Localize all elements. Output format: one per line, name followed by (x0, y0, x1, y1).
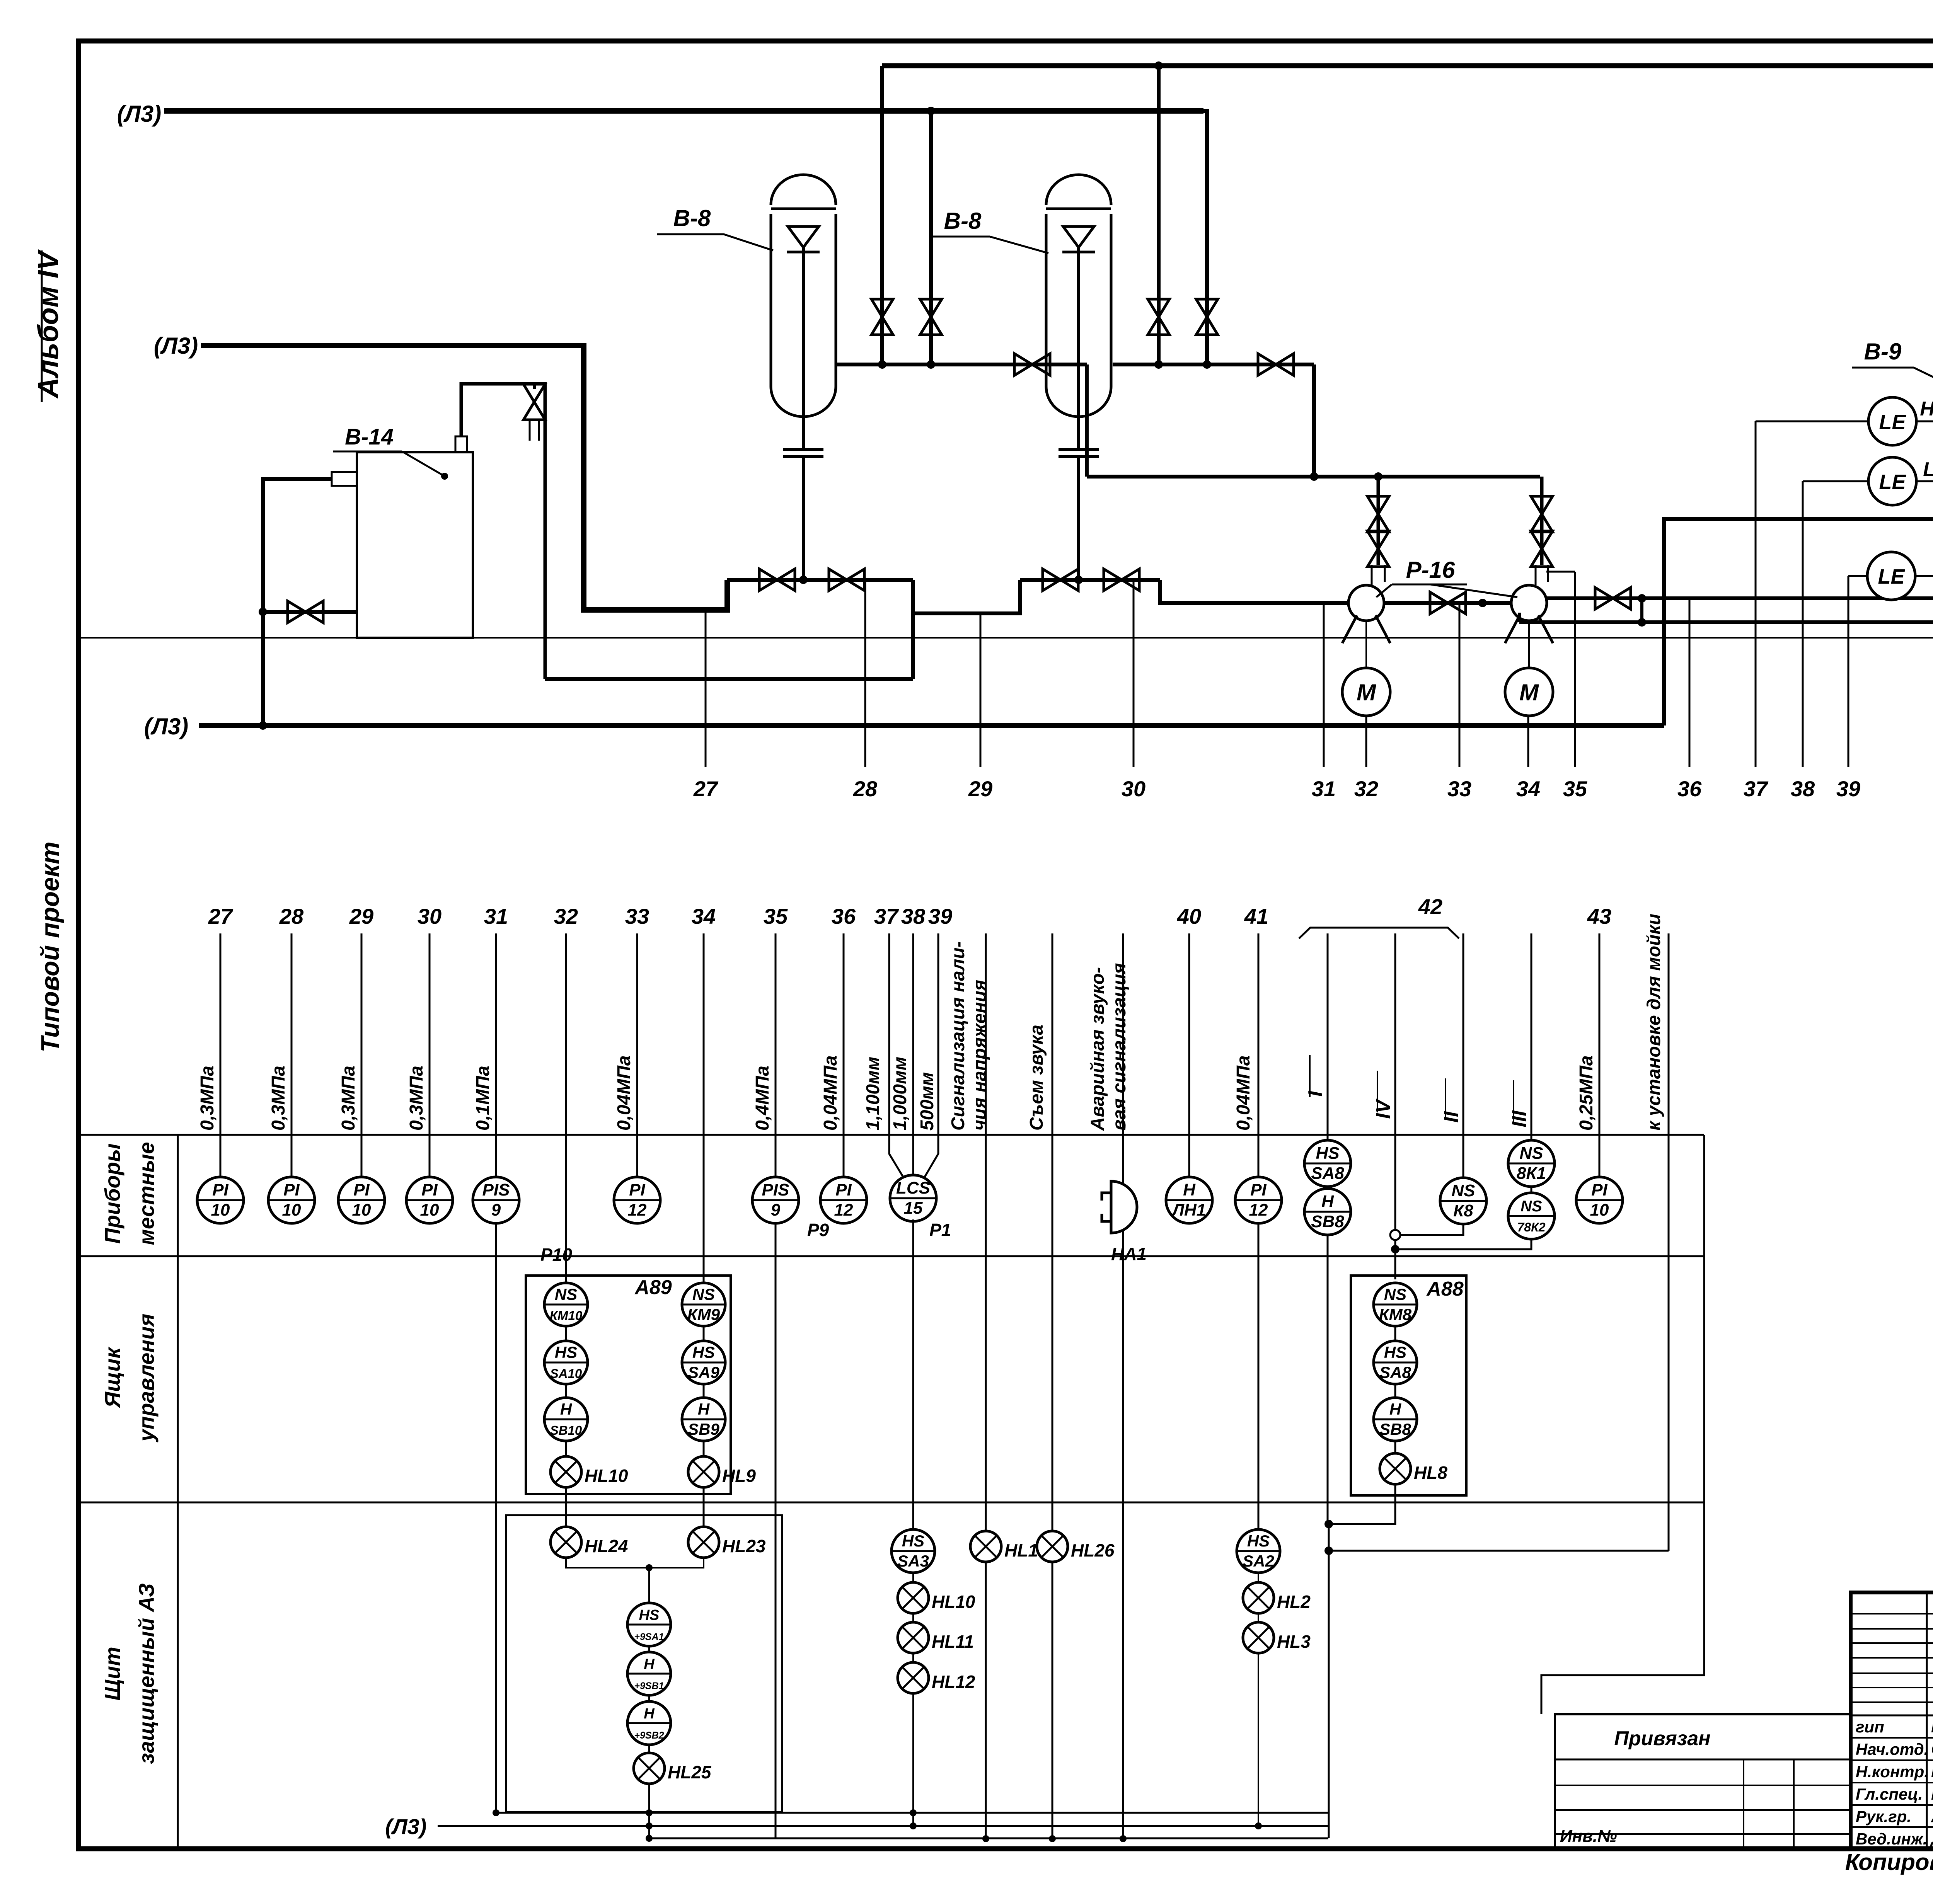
wire tap line 30 (1133, 580, 1135, 767)
svg-text:защищенный АЗ: защищенный АЗ (134, 1583, 159, 1764)
svg-text:Р1: Р1 (929, 1220, 951, 1240)
svg-text:HL24: HL24 (585, 1536, 628, 1556)
svg-text:15: 15 (904, 1199, 923, 1218)
level sensor LE bottom (1867, 552, 1915, 600)
svg-text:(Л3): (Л3) (144, 714, 189, 739)
gauge PI-10 line27 (197, 1177, 244, 1223)
lamp HL2 (1243, 1582, 1311, 1613)
svg-text:+9SВ2: +9SВ2 (634, 1730, 664, 1741)
wire pump1 to motor (1365, 621, 1367, 668)
wire NS-K8 hook (1395, 1224, 1463, 1235)
band divider: instruments row top (78, 1134, 1704, 1136)
svg-text:12: 12 (834, 1201, 853, 1219)
valve on vessel1 right riser (920, 299, 942, 335)
svg-text:HL25: HL25 (668, 1762, 712, 1782)
wire bypass1 drop (911, 580, 915, 679)
wire signal line Signalizaciya (985, 933, 987, 1839)
lamp HL12 (898, 1662, 975, 1693)
svg-text:SА8: SА8 (1379, 1363, 1411, 1381)
svg-text:34: 34 (692, 904, 716, 928)
pump P-16 no.2 (1505, 585, 1553, 643)
svg-text:34: 34 (1516, 777, 1540, 801)
svg-text:0,3МПа: 0,3МПа (197, 1066, 218, 1131)
svg-text:(Л3): (Л3) (117, 101, 162, 127)
tank B-14 inlet stub (332, 472, 357, 486)
wire lower line 40 (1188, 933, 1190, 1179)
wire top pipe (882, 63, 1933, 68)
svg-text:39: 39 (1836, 777, 1860, 801)
vessel B-8 no.1 (771, 175, 836, 417)
valve vessel2 bypass left (1043, 569, 1078, 591)
svg-text:27: 27 (208, 904, 234, 928)
svg-text:HS: HS (692, 1343, 715, 1361)
wire tap line 38 (1802, 481, 1804, 767)
wire lower line 33 (636, 933, 638, 1179)
band divider: control box row (78, 1255, 1704, 1257)
switch HS-SA9 (682, 1341, 725, 1384)
svg-text:HL11: HL11 (932, 1632, 974, 1652)
floor line (78, 637, 1933, 639)
wire pump2 discharge riser (1540, 477, 1544, 565)
valve vessel1 bypass right (829, 569, 864, 591)
svg-text:Копировал Волкова: Копировал Волкова (1845, 1849, 1933, 1875)
svg-text:1,000мм: 1,000мм (890, 1057, 910, 1131)
svg-text:Н: Н (560, 1400, 573, 1418)
svg-text:HL10: HL10 (585, 1466, 628, 1486)
gauge PI-12 line33 (614, 1177, 660, 1223)
svg-text:Р9: Р9 (807, 1220, 829, 1240)
valve pump1 discharge upper (1367, 531, 1389, 567)
svg-text:12: 12 (628, 1201, 647, 1219)
svg-text:(Л3): (Л3) (385, 1814, 427, 1839)
pump1 discharge stub (1372, 565, 1385, 585)
svg-text:HS: HS (1384, 1343, 1406, 1361)
starter NS-K8 line II (1440, 1178, 1486, 1224)
privyazan table (1555, 1714, 1851, 1849)
svg-text:Ящик: Ящик (100, 1346, 124, 1408)
svg-text:+9SА1: +9SА1 (634, 1632, 664, 1642)
wire tap line 29 (980, 613, 982, 767)
wire HL24-HL23 join (566, 1558, 704, 1568)
svg-text:0,1МПа: 0,1МПа (473, 1066, 493, 1131)
stamp row line (1851, 1613, 1933, 1614)
junction HL8 / line I (1324, 1520, 1333, 1528)
B-14 vent stub (455, 436, 467, 452)
svg-text:местные: местные (134, 1142, 159, 1245)
svg-text:NS: NS (692, 1285, 715, 1303)
wire B-14 feed from L3-3 (263, 479, 332, 725)
svg-text:9: 9 (771, 1201, 781, 1219)
svg-text:Рук.гр.: Рук.гр. (1856, 1807, 1911, 1826)
pump P-16 no.1 (1342, 585, 1390, 643)
switch HS-SA8 in A88 (1374, 1341, 1417, 1384)
svg-text:NS: NS (1384, 1285, 1406, 1303)
svg-text:II: II (1440, 1111, 1463, 1122)
wire lower line 32 (565, 933, 567, 1283)
svg-text:HL3: HL3 (1277, 1632, 1311, 1652)
svg-text:HL1: HL1 (1004, 1540, 1038, 1560)
button H-SB9 (682, 1398, 725, 1441)
svg-text:Кузнецов: Кузнецов (1931, 1785, 1933, 1804)
wire lower line II (1463, 933, 1464, 1179)
wire lower line I (1327, 933, 1329, 1141)
svg-text:8К1: 8К1 (1517, 1164, 1546, 1183)
svg-text:1,100мм: 1,100мм (863, 1057, 883, 1131)
wire lower line 43 (1599, 933, 1601, 1178)
svg-text:Р10: Р10 (540, 1245, 572, 1265)
level sensor LE L (1868, 457, 1916, 505)
svg-text:L: L (1923, 458, 1933, 481)
level controller LCS-15 (890, 1175, 951, 1240)
switch PIS-9 line35 (752, 1177, 829, 1240)
svg-text:12: 12 (1249, 1201, 1268, 1219)
svg-text:28: 28 (279, 904, 304, 928)
lamp HL25 (634, 1753, 712, 1784)
svg-text:Н: Н (1389, 1400, 1402, 1418)
valve pump1 discharge lower (1367, 496, 1389, 532)
wire bottom collector 2 (649, 1838, 1328, 1839)
wire discharge header (1087, 475, 1540, 479)
wire line I continuation (1327, 1235, 1329, 1524)
svg-text:37: 37 (1744, 777, 1769, 801)
svg-text:SА9: SА9 (688, 1363, 719, 1381)
svg-text:35: 35 (764, 904, 788, 928)
svg-text:PI: PI (1250, 1180, 1267, 1199)
wire LE3 to tank (1915, 575, 1933, 577)
wire tap line 28 (864, 580, 866, 767)
svg-text:29: 29 (968, 777, 992, 801)
starter NS-KM9 (682, 1283, 725, 1326)
label column divider (177, 1135, 179, 1849)
svg-text:SА2: SА2 (1243, 1552, 1274, 1570)
starter NS-78K2 line III (1508, 1193, 1555, 1239)
svg-text:0,04МПа: 0,04МПа (614, 1055, 634, 1131)
svg-text:HS: HS (1316, 1144, 1339, 1163)
lamp HL26 (1037, 1531, 1115, 1562)
wire pump discharge to B-9 (1546, 596, 1933, 600)
wire vessel2 bypass (1020, 578, 1160, 582)
svg-text:HS: HS (902, 1532, 924, 1550)
valve B-14 side (288, 601, 323, 623)
svg-text:0,04МПа: 0,04МПа (1233, 1055, 1254, 1131)
svg-text:SВ8: SВ8 (1379, 1420, 1411, 1438)
svg-text:HL23: HL23 (722, 1536, 766, 1556)
svg-text:HS: HS (555, 1343, 577, 1361)
svg-text:управления: управления (134, 1314, 159, 1443)
svg-text:31: 31 (484, 904, 508, 928)
svg-text:вая сигнализация: вая сигнализация (1109, 963, 1130, 1131)
wire HL8 output (1329, 1484, 1395, 1524)
button H-+9SB1 (627, 1652, 671, 1695)
valve on vessel1 left riser (871, 299, 893, 335)
svg-text:10: 10 (420, 1201, 439, 1219)
svg-text:Щит: Щит (100, 1647, 124, 1700)
svg-text:I: I (1304, 1090, 1327, 1097)
svg-text:HL2: HL2 (1277, 1592, 1311, 1612)
svg-text:LE: LE (1878, 565, 1905, 588)
motor M pump1 (1342, 668, 1390, 716)
vessel B-8 no.1 dip tube (802, 247, 805, 450)
junction dip tube 2 / bypass (1074, 576, 1083, 584)
svg-text:SВ8: SВ8 (1311, 1212, 1344, 1231)
band divider: panel row (78, 1502, 1704, 1504)
tank B-14 (357, 452, 473, 638)
svg-text:HS: HS (639, 1607, 660, 1623)
wire riser vessel2 right (1203, 111, 1207, 364)
wire lower line III (1531, 933, 1532, 1141)
button H-+9SB2 (627, 1701, 671, 1745)
svg-text:В-8: В-8 (673, 205, 711, 231)
svg-text:PI: PI (353, 1180, 370, 1199)
svg-text:LE: LE (1879, 410, 1906, 434)
wire tap line 37 (1755, 421, 1757, 767)
switch PIS-9 line31 (473, 1177, 572, 1265)
svg-text:SА10: SА10 (550, 1366, 582, 1381)
valve on vessel2 right riser (1196, 299, 1218, 335)
svg-text:9: 9 (491, 1201, 501, 1219)
svg-text:36: 36 (1677, 777, 1702, 801)
junction Avariynaya line (1120, 1835, 1127, 1842)
wire lower line 41 (1258, 933, 1260, 1529)
svg-text:А88: А88 (1426, 1278, 1463, 1300)
svg-text:HL8: HL8 (1414, 1463, 1447, 1483)
svg-text:В-9: В-9 (1864, 339, 1902, 364)
svg-text:Вед.инж.: Вед.инж. (1856, 1830, 1927, 1848)
svg-text:Сигнализация нали-: Сигнализация нали- (948, 941, 968, 1131)
wire LCS continuation (912, 1219, 914, 1529)
wire pump1 discharge riser (1377, 477, 1380, 565)
svg-text:32: 32 (1354, 777, 1378, 801)
bracket for line 42 group (1299, 928, 1459, 938)
svg-text:SВ9: SВ9 (688, 1420, 719, 1438)
svg-text:37: 37 (874, 904, 899, 928)
lamp H-LN1 line40 (1166, 1177, 1212, 1223)
svg-text:SА3: SА3 (897, 1552, 929, 1570)
svg-text:А89: А89 (634, 1276, 672, 1299)
wire signal line Syom zvuka (1052, 933, 1053, 1839)
wire NS-78K2 hook (1395, 1239, 1531, 1249)
vent valve lower stub (530, 420, 539, 441)
junction manifold / line 33 (1478, 599, 1487, 607)
wire vessel2 bypass to pump1 (1160, 580, 1348, 603)
wire vessel2 header drop (1312, 364, 1316, 477)
svg-text:0,25МПа: 0,25МПа (1576, 1055, 1597, 1131)
svg-text:HL26: HL26 (1071, 1540, 1115, 1560)
wire HL1 down (985, 1562, 987, 1839)
wire lower header to B-9 (1519, 620, 1933, 624)
svg-text:36: 36 (832, 904, 856, 928)
wire HL9 down (703, 1487, 705, 1527)
svg-text:H: H (1920, 398, 1933, 420)
lamp HL23 (688, 1527, 766, 1558)
valve after pump2 (1595, 588, 1631, 609)
wire junction riser (1328, 1524, 1330, 1838)
horn HA1 (1102, 1181, 1137, 1233)
svg-text:0,04МПа: 0,04МПа (820, 1055, 841, 1131)
svg-text:IV: IV (1372, 1098, 1394, 1119)
valve vessel1 header (1014, 354, 1050, 375)
wire jog (1640, 598, 1643, 622)
lamp HL1 (970, 1531, 1038, 1562)
wire vent valve stub (533, 384, 536, 389)
lamp HL11 (898, 1622, 974, 1653)
wire LE3 lead (line 39) (1848, 575, 1867, 577)
svg-text:33: 33 (1447, 777, 1471, 801)
switch HS-SA8 line I (1304, 1140, 1351, 1187)
svg-text:PI: PI (835, 1180, 852, 1199)
gauge PI-10 line43 (1576, 1177, 1623, 1223)
wire B-14 side valve line (263, 610, 357, 614)
starter NS-8K1 line III (1508, 1140, 1555, 1187)
svg-text:27: 27 (693, 777, 719, 801)
svg-text:32: 32 (554, 904, 578, 928)
wire LE-H to tank (1916, 421, 1933, 422)
wire vessel2 header (1113, 363, 1314, 366)
title block outer (1851, 1592, 1933, 1849)
svg-text:Кузнецов: Кузнецов (1931, 1762, 1933, 1781)
lamp HL8 (1380, 1453, 1447, 1484)
wire HL10 down (565, 1487, 567, 1527)
lamp HL3 (1243, 1622, 1311, 1653)
svg-text:Н: Н (1321, 1192, 1334, 1211)
svg-text:HL12: HL12 (932, 1672, 975, 1692)
svg-text:HS: HS (1247, 1532, 1270, 1550)
wire lower line 35 (775, 933, 777, 1839)
wire L3 line 3 (199, 723, 1664, 728)
wire lower line 28 (291, 933, 293, 1179)
wire L3 line 1 (164, 108, 1203, 114)
svg-text:(Л3): (Л3) (154, 333, 198, 359)
junction L3-1 / riser (927, 107, 935, 115)
svg-text:38: 38 (1791, 777, 1815, 801)
svg-text:Н: Н (698, 1400, 710, 1418)
svg-text:Пивторак: Пивторак (1931, 1717, 1933, 1736)
svg-text:40: 40 (1177, 904, 1201, 928)
svg-text:Типовой проект: Типовой проект (36, 841, 64, 1052)
svg-text:35: 35 (1563, 777, 1587, 801)
wire line35 tap (1546, 571, 1575, 573)
wire to HS chain (648, 1568, 650, 1603)
wire bypass link (913, 580, 1020, 613)
wire lower line 31 (495, 933, 497, 1813)
svg-text:+9SВ1: +9SВ1 (634, 1681, 664, 1691)
svg-text:Привязан: Привязан (1614, 1727, 1710, 1750)
wire lower line 30 (429, 933, 431, 1179)
svg-text:0,3МПа: 0,3МПа (406, 1066, 427, 1131)
lamp HL24 (551, 1527, 628, 1558)
junction dip tube 1 / bypass (799, 576, 808, 584)
svg-text:500мм: 500мм (917, 1072, 938, 1131)
svg-text:М: М (1519, 680, 1539, 705)
svg-text:NS: NS (555, 1285, 577, 1303)
wire lower line 37 (889, 933, 904, 1178)
wire tap line 35 (1574, 572, 1576, 767)
wire vent collector (545, 677, 913, 681)
svg-text:Н: Н (644, 1706, 655, 1722)
switch HS-SA10 (544, 1341, 588, 1384)
control box A89 (526, 1276, 731, 1494)
svg-text:PI: PI (629, 1180, 645, 1199)
valve pump2 discharge upper (1531, 531, 1553, 567)
svg-text:ЛН1: ЛН1 (1171, 1201, 1206, 1219)
wire to k ustanovke line (1329, 1550, 1669, 1552)
pump2 discharge stub (1536, 565, 1548, 585)
switch HS-SA2 (1237, 1529, 1280, 1573)
wire HL3 down (1258, 1653, 1259, 1826)
switch HS-SA3 (891, 1529, 935, 1573)
svg-text:PI: PI (283, 1180, 300, 1199)
svg-text:0,3МПа: 0,3МПа (268, 1066, 289, 1131)
wire signal line Avariynaya (1122, 933, 1124, 1839)
valve on vessel2 left riser (1148, 299, 1169, 335)
right boundary step to title block (1541, 1135, 1704, 1714)
svg-text:SВ10: SВ10 (550, 1423, 582, 1437)
vessel B-8 no.2 dip tube (1077, 247, 1080, 450)
button H-SB8 line I (1304, 1189, 1351, 1235)
svg-text:PIS: PIS (482, 1180, 510, 1199)
svg-text:LCS: LCS (896, 1179, 930, 1197)
svg-text:Съем звука: Съем звука (1026, 1025, 1047, 1131)
starter NS-KM8 (1374, 1283, 1417, 1326)
wire bottom collector L3 (438, 1825, 1328, 1827)
svg-text:0,3МПа: 0,3МПа (338, 1066, 359, 1131)
svg-text:PIS: PIS (762, 1180, 789, 1199)
svg-text:10: 10 (352, 1201, 371, 1219)
svg-text:NS: NS (1519, 1144, 1543, 1163)
valve pump2 discharge lower (1531, 496, 1553, 532)
gauge PI-12 line41 (1235, 1177, 1282, 1223)
svg-text:PI: PI (1591, 1180, 1607, 1199)
svg-text:78К2: 78К2 (1517, 1220, 1545, 1234)
wire lower line 39 (924, 933, 938, 1178)
svg-text:НА1: НА1 (1111, 1244, 1147, 1264)
junction L3-3 / B-14 feed (259, 721, 267, 730)
wire vessel1 bypass (727, 578, 913, 582)
wire riser vessel2 left (1157, 66, 1161, 364)
valve between pumps (1430, 592, 1466, 614)
wire vessel1 header (835, 363, 1087, 366)
gauge PI-10 line29 (338, 1177, 385, 1223)
gauge PI-10 line30 (406, 1177, 453, 1223)
stamp column line (1926, 1592, 1928, 1849)
svg-text:HL9: HL9 (722, 1466, 756, 1486)
svg-text:Н.контр.: Н.контр. (1856, 1763, 1929, 1781)
gauge PI-12 line36 (820, 1177, 867, 1223)
lamp HL10 in A89 (551, 1456, 628, 1487)
svg-text:чия напряжения: чия напряжения (970, 980, 990, 1131)
svg-text:В-14: В-14 (345, 424, 394, 450)
wire riser vessel1 left (880, 66, 884, 364)
switch HS-+9SA1 (627, 1603, 671, 1646)
svg-text:31: 31 (1312, 777, 1336, 801)
svg-text:SА8: SА8 (1311, 1164, 1344, 1183)
svg-text:29: 29 (349, 904, 373, 928)
lamp HL9 in A89 (688, 1456, 756, 1487)
wire tap line 32 (1365, 716, 1367, 767)
wire HL25 down (648, 1784, 650, 1838)
svg-text:10: 10 (211, 1201, 230, 1219)
svg-text:Приборы: Приборы (100, 1143, 124, 1244)
svg-text:Н: Н (644, 1656, 655, 1672)
gauge PI-10 line28 (268, 1177, 315, 1223)
wire lower line 27 (220, 933, 222, 1179)
svg-text:Аварийная звуко-: Аварийная звуко- (1088, 967, 1108, 1131)
wire lower line 38 (912, 933, 914, 1176)
wire L3 line 2 to vessel1 bypass (201, 346, 727, 610)
svg-text:КМ9: КМ9 (687, 1305, 720, 1323)
svg-text:Гл.спец.: Гл.спец. (1856, 1785, 1923, 1803)
wire B-14 vent (461, 384, 545, 679)
